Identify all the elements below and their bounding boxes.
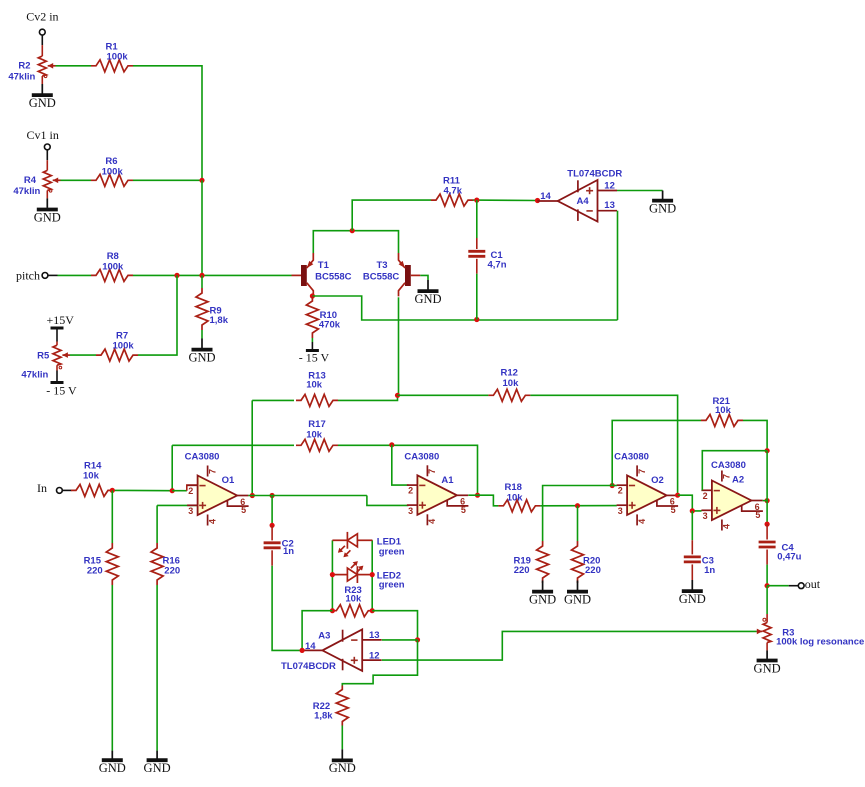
resistor R22 1,8k — [336, 686, 348, 726]
wire R8 to T1 base — [133, 274, 292, 276]
svg-text:R2: R2 — [18, 61, 30, 72]
svg-text:GND: GND — [414, 292, 441, 306]
svg-text:out: out — [805, 577, 821, 591]
ground GND under R19 — [529, 581, 556, 607]
wire node to R12 — [398, 394, 489, 396]
svg-text:Cv1 in: Cv1 in — [27, 128, 59, 142]
ground GND under R22 — [329, 749, 356, 775]
svg-text:A1: A1 — [441, 475, 454, 486]
svg-text:220: 220 — [514, 565, 530, 576]
svg-text:100k: 100k — [107, 51, 129, 62]
terminal In — [57, 488, 63, 494]
svg-text:+15V: +15V — [46, 313, 74, 327]
wire jog to A1 pin3 — [367, 496, 409, 506]
wire C2 to A3 pin14 — [272, 566, 302, 651]
wire O1 out down to C2 — [271, 496, 273, 526]
wire down to R15 — [111, 490, 113, 543]
wiper marker R3 — [763, 618, 766, 621]
wire R14 to O1 pin2 — [113, 489, 172, 491]
junction A2 pin2 branch — [765, 448, 770, 453]
svg-text:GND: GND — [188, 350, 215, 364]
wire pitch lead — [48, 274, 58, 276]
junction R20 tap — [575, 503, 580, 508]
svg-text:GND: GND — [329, 761, 356, 775]
ground GND under R20 — [564, 581, 591, 607]
wire A3 pin13 to R22 staircase — [342, 640, 417, 686]
svg-text:GND: GND — [144, 761, 171, 775]
svg-text:In: In — [37, 481, 47, 495]
svg-text:5: 5 — [241, 505, 246, 515]
svg-text:T1: T1 — [318, 260, 330, 271]
terminal out — [798, 583, 804, 589]
junction LED2 left — [330, 572, 335, 577]
resistor R1 100k — [91, 60, 133, 72]
junction C2 top — [270, 523, 275, 528]
wire R11 node down to C1 — [476, 200, 478, 238]
wire out node to R3 — [766, 586, 768, 614]
ground GND at A4 pin12 — [649, 191, 676, 216]
svg-text:7: 7 — [637, 469, 647, 474]
svg-text:R18: R18 — [505, 482, 522, 493]
svg-text:10k: 10k — [83, 471, 100, 482]
wire to out terminal — [767, 585, 789, 587]
wire R21 to A2 net — [743, 420, 767, 450]
wire R4 top lead — [46, 160, 48, 170]
wire to R9 — [201, 275, 203, 288]
wiper arrow R4 — [53, 179, 61, 181]
wire to O1 pin2 jog — [172, 490, 187, 492]
wire C1 to rail — [476, 274, 478, 320]
capacitor C1 4,7n — [468, 250, 485, 253]
op-amp A3 TL074BCDR — [302, 629, 382, 671]
svg-text:100k log resonance: 100k log resonance — [776, 637, 864, 648]
op-amp A4 TL074BCDR — [537, 180, 617, 222]
svg-text:12: 12 — [604, 180, 615, 191]
svg-text:100k: 100k — [113, 341, 135, 352]
resistor R16 220 — [151, 543, 163, 585]
wire C3 bottom lead — [691, 564, 693, 580]
svg-text:GND: GND — [564, 592, 591, 606]
svg-text:3: 3 — [408, 506, 413, 516]
wire C2 top lead — [271, 525, 273, 540]
transistor T3 BC558C — [399, 253, 421, 296]
svg-text:1,8k: 1,8k — [210, 315, 229, 326]
svg-text:4,7k: 4,7k — [444, 186, 463, 197]
power bar +15V — [51, 327, 64, 330]
wire C2 bottom lead — [271, 550, 273, 565]
junction A1 pin2 branch — [389, 442, 394, 447]
wire R3 bottom lead — [766, 643, 768, 651]
wire R5 wiper to R7 — [70, 354, 96, 356]
svg-text:R6: R6 — [105, 156, 117, 167]
ground GND under R4 — [34, 198, 61, 224]
wire T1 collector to A4 pin13 rail — [312, 296, 617, 320]
capacitor C4 0,47u — [759, 541, 776, 544]
svg-text:2: 2 — [408, 486, 413, 496]
junction R23 left — [330, 608, 335, 613]
junction A4 pin 14 — [535, 198, 540, 203]
svg-text:10k: 10k — [715, 405, 732, 416]
svg-text:3: 3 — [703, 511, 708, 521]
wiper marker R5 — [59, 366, 62, 369]
wire R2 bottom lead — [41, 76, 43, 84]
junction O1 output / C2 — [270, 493, 275, 498]
resistor R19 220 — [537, 541, 549, 583]
svg-text:4: 4 — [637, 519, 647, 524]
power bar -15V under R10 — [306, 349, 319, 352]
svg-text:7: 7 — [427, 469, 437, 474]
svg-text:220: 220 — [585, 565, 601, 576]
wire C4 bottom lead — [766, 550, 768, 565]
wire R17 to A1 output — [338, 445, 478, 495]
wire R20 top — [577, 506, 579, 541]
svg-text:- 15 V: - 15 V — [299, 351, 330, 365]
wire R12 to O2 output vertical — [530, 395, 677, 495]
resistor R15 220 — [106, 543, 118, 585]
wire O2 pin2 to R19 — [543, 486, 613, 542]
wire R10 to -15V — [311, 342, 313, 349]
wire R4 wiper to R6 — [61, 179, 92, 181]
svg-text:100k: 100k — [102, 262, 124, 273]
svg-text:CA3080: CA3080 — [711, 460, 746, 471]
transistor T1 BC558C — [292, 253, 314, 296]
junction R6/CV vertical — [199, 178, 204, 183]
resistor R23 10k — [332, 605, 372, 617]
resistor R11 4,7k — [431, 194, 473, 206]
junction O1 pin2 — [170, 488, 175, 493]
junction pitch/R9 — [199, 273, 204, 278]
svg-text:10k: 10k — [306, 430, 323, 441]
wire O2 pin2 up to R21 — [612, 420, 701, 485]
svg-text:BC558C: BC558C — [315, 272, 352, 283]
ground GND at T3 base — [414, 280, 441, 306]
terminal Cv1 in — [44, 144, 50, 150]
wire A2 pin2 feedback — [702, 451, 767, 491]
svg-text:O2: O2 — [651, 475, 664, 486]
junction A1 output — [475, 493, 480, 498]
potentiometer R2 47klin — [38, 56, 46, 76]
svg-text:13: 13 — [369, 630, 380, 641]
svg-text:2: 2 — [188, 486, 193, 496]
resistor R17 10k — [296, 439, 338, 451]
svg-text:GND: GND — [99, 761, 126, 775]
wire C4 top lead — [766, 524, 768, 539]
potentiometer R4 47klin — [43, 170, 51, 190]
junction C4 top — [765, 522, 770, 527]
resistor R18 10k — [498, 500, 540, 512]
svg-text:4: 4 — [427, 519, 437, 524]
wire pitch to R8 — [58, 274, 92, 276]
op-amp A1 CA3080 — [404, 452, 468, 526]
svg-text:CA3080: CA3080 — [614, 452, 649, 463]
wire out lead — [789, 585, 798, 587]
svg-text:green: green — [379, 546, 405, 557]
resistor R7 100k — [96, 349, 138, 361]
svg-text:5: 5 — [671, 505, 676, 515]
capacitor C3 1n — [684, 556, 701, 559]
capacitor C2 1n — [264, 541, 281, 544]
resistor R9 1,8k — [196, 288, 208, 330]
svg-text:A4: A4 — [577, 196, 590, 207]
wire down to C3 — [691, 511, 693, 540]
wire to -15V bar — [56, 371, 58, 382]
svg-text:7: 7 — [722, 474, 732, 479]
wire A4 pin12 to ground — [617, 190, 663, 192]
wire emitter rail T1-T3 — [313, 231, 398, 253]
wire A3 pin13 — [382, 639, 418, 641]
svg-text:Cv2 in: Cv2 in — [26, 10, 58, 24]
wire In lead — [62, 489, 71, 491]
resistor R8 100k — [91, 269, 133, 281]
ground GND under R2 — [29, 84, 56, 110]
op-amp O1 CA3080 — [185, 452, 249, 526]
junction emitter rail / R11 branch — [350, 228, 355, 233]
ground GND under R16 — [144, 751, 171, 775]
wire C4 to out node — [766, 565, 768, 586]
svg-text:GND: GND — [29, 96, 56, 110]
wire Cv2 lead — [41, 35, 43, 45]
svg-text:2: 2 — [703, 491, 708, 501]
wire R16 to ground — [156, 585, 158, 751]
svg-text:5: 5 — [461, 505, 466, 515]
svg-text:1n: 1n — [704, 565, 715, 576]
wire R4 bottom lead — [46, 190, 48, 198]
wire R11 to A4 pin14 — [473, 199, 538, 201]
wire C1 top lead — [476, 238, 478, 249]
wire R23 left to A3 pin14 — [302, 611, 332, 651]
svg-text:3: 3 — [188, 506, 193, 516]
svg-text:10k: 10k — [306, 380, 323, 391]
wire O1 output to A1 pin3 jog — [248, 495, 367, 497]
LED2 green — [332, 561, 372, 583]
svg-text:470k: 470k — [319, 319, 341, 330]
svg-text:3: 3 — [618, 506, 623, 516]
terminal pitch — [42, 273, 48, 279]
junction A2 pin3 / C3 — [690, 508, 695, 513]
svg-text:R4: R4 — [24, 175, 37, 186]
svg-text:2: 2 — [618, 486, 623, 496]
svg-text:CA3080: CA3080 — [404, 452, 439, 463]
wire R3 top lead — [766, 614, 768, 623]
wire A2 output — [763, 500, 767, 502]
wire R7 to pitch node — [138, 275, 177, 355]
wire rail down to O1 pin2 — [171, 445, 173, 490]
junction O2 pin2 — [610, 483, 615, 488]
wire R22 to ground — [341, 726, 343, 750]
junction R14 / R15 — [110, 488, 115, 493]
svg-text:O1: O1 — [222, 475, 235, 486]
wiper arrow R3 — [757, 630, 763, 632]
svg-text:R5: R5 — [37, 351, 50, 362]
svg-text:GND: GND — [679, 592, 706, 606]
ground GND under R3 — [754, 650, 781, 675]
wire A2 output vertical — [766, 451, 768, 524]
wire R2 top lead — [41, 45, 43, 56]
svg-text:14: 14 — [305, 641, 316, 652]
junction out node — [765, 583, 770, 588]
wire R2 wiper to R1 — [56, 65, 92, 67]
wire R10 bottom lead — [311, 338, 313, 342]
svg-text:10k: 10k — [345, 594, 362, 605]
svg-text:7: 7 — [207, 469, 217, 474]
svg-text:220: 220 — [164, 566, 180, 577]
svg-text:- 15 V: - 15 V — [46, 383, 77, 397]
svg-text:14: 14 — [540, 191, 551, 202]
svg-text:100k: 100k — [102, 167, 124, 178]
junction A3 pin14 — [300, 648, 305, 653]
svg-text:GND: GND — [529, 592, 556, 606]
svg-text:1,8k: 1,8k — [314, 711, 333, 722]
wire R18 to O2 pin3 — [540, 505, 616, 507]
wire R9 to ground — [201, 330, 203, 339]
wire R13 right jog — [338, 395, 398, 400]
wire O1 pin2 rail to R17 — [172, 444, 294, 446]
resistor R13 10k — [296, 394, 338, 406]
resistor R12 10k — [488, 389, 530, 401]
svg-text:47klin: 47klin — [21, 369, 48, 380]
wire +15V lead — [56, 330, 58, 342]
resistor R10 470k — [306, 296, 318, 338]
wiper marker R4 — [49, 190, 52, 193]
junction O1 output / R13 — [250, 493, 255, 498]
wiper marker R2 — [44, 75, 47, 78]
junction C1 bottom on rail — [474, 317, 479, 322]
potentiometer R5 47klin — [53, 345, 61, 365]
svg-text:5: 5 — [755, 510, 760, 520]
wire R5 bottom lead — [56, 365, 58, 370]
wire O2 pin2 join — [612, 485, 617, 487]
svg-text:GND: GND — [754, 661, 781, 675]
wire LED left vertical — [331, 540, 333, 610]
ground GND under C3 — [679, 580, 706, 606]
svg-text:220: 220 — [87, 566, 103, 577]
svg-text:green: green — [379, 580, 405, 591]
wire O2 out to A2 pin3 — [678, 495, 702, 511]
LED1 green — [332, 532, 372, 557]
ground GND under R9 — [188, 339, 215, 365]
resistor R6 100k — [91, 174, 133, 186]
svg-text:CA3080: CA3080 — [185, 452, 220, 463]
svg-text:pitch: pitch — [16, 269, 40, 283]
svg-text:47klin: 47klin — [13, 186, 40, 197]
wire A1 output — [468, 494, 477, 496]
wire A1 out jog to R18 — [478, 495, 499, 506]
wire R15 to ground — [111, 585, 113, 751]
svg-text:4: 4 — [722, 524, 732, 529]
svg-text:GND: GND — [34, 210, 61, 224]
wire T3 collector down to R13 node — [398, 297, 400, 395]
potentiometer R3 100k log resonance — [763, 623, 771, 643]
junction O2 output — [675, 493, 680, 498]
ground GND under R15 — [99, 751, 126, 775]
svg-text:12: 12 — [369, 651, 380, 662]
svg-text:47klin: 47klin — [8, 72, 35, 83]
svg-text:4,7n: 4,7n — [488, 259, 507, 270]
svg-text:GND: GND — [649, 201, 676, 215]
wire down to R16 — [156, 505, 158, 543]
svg-text:1n: 1n — [283, 546, 294, 557]
resistor R21 10k — [701, 414, 743, 426]
svg-text:A2: A2 — [732, 475, 744, 486]
svg-text:13: 13 — [604, 200, 615, 211]
junction T3 collector / R12 node — [395, 393, 400, 398]
wire R13 left — [252, 399, 294, 401]
wire emitter rail to R11 — [352, 200, 431, 231]
junction R23 right — [370, 608, 375, 613]
junction R11 / C1 — [474, 198, 479, 203]
wire R5 top lead — [56, 342, 58, 346]
resistor R14 10k — [71, 484, 113, 496]
wire Cv1 lead — [46, 150, 48, 160]
wire CV summing vertical — [201, 180, 203, 275]
svg-text:TL074BCDR: TL074BCDR — [567, 169, 622, 180]
op-amp A2 CA3080 — [701, 460, 763, 531]
svg-text:R17: R17 — [308, 419, 325, 430]
op-amp O2 CA3080 — [614, 452, 678, 526]
wire C3 top lead — [691, 540, 693, 554]
wire R13 left down to O1 output — [251, 400, 253, 495]
svg-text:T3: T3 — [377, 260, 388, 271]
junction A2 output — [765, 498, 770, 503]
svg-text:A3: A3 — [318, 631, 330, 642]
resistor R20 220 — [572, 541, 584, 583]
svg-text:BC558C: BC558C — [363, 272, 400, 283]
wire A3 pin12 to R3 wiper — [382, 631, 757, 660]
wire O1 pin3 — [157, 504, 198, 506]
junction A3 pin13 — [415, 637, 420, 642]
wire R23 right to A3 pin13 — [372, 611, 417, 640]
svg-text:4: 4 — [207, 519, 217, 524]
svg-text:TL074BCDR: TL074BCDR — [281, 661, 336, 672]
wire R6 to summing node — [133, 179, 202, 181]
wire jog into O1 pin2 — [187, 485, 198, 491]
wire LED right vertical — [371, 540, 373, 610]
svg-text:10k: 10k — [507, 493, 524, 504]
svg-text:0,47u: 0,47u — [777, 552, 801, 563]
wire R1 to CV summing vertical — [133, 66, 202, 181]
terminal Cv2 in — [39, 29, 45, 35]
wiper arrow R2 — [48, 65, 56, 67]
junction pitch/R7 — [174, 273, 179, 278]
wire T3 base to ground — [420, 275, 428, 280]
wire A4 pin13 feedback down — [617, 211, 619, 320]
svg-text:10k: 10k — [503, 378, 520, 389]
svg-text:R8: R8 — [107, 251, 119, 262]
junction T1 collector / R10 — [310, 293, 315, 298]
wire down to A1 pin2 — [392, 445, 409, 485]
wire C1 bottom lead — [476, 259, 478, 274]
junction LED2 right — [370, 572, 375, 577]
wiper arrow R5 — [62, 354, 70, 356]
power bar -15V under R5 — [51, 381, 64, 384]
